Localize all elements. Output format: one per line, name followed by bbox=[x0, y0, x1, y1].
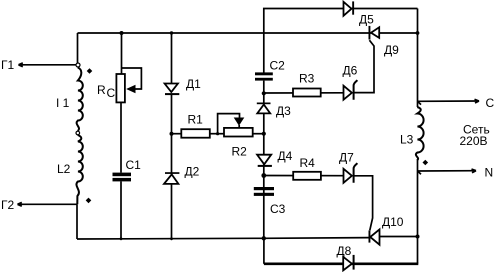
svg-text:C3: C3 bbox=[270, 202, 286, 216]
svg-text:R3: R3 bbox=[299, 72, 315, 86]
svg-text:Д6: Д6 bbox=[343, 64, 358, 78]
svg-text:Д7: Д7 bbox=[339, 151, 354, 165]
svg-text:Г2: Г2 bbox=[1, 198, 14, 212]
svg-text:Г1: Г1 bbox=[1, 58, 14, 72]
svg-text:Д9: Д9 bbox=[384, 43, 399, 57]
svg-text:Д4: Д4 bbox=[278, 149, 293, 163]
svg-text:С: С bbox=[486, 96, 495, 110]
svg-text:Д8: Д8 bbox=[337, 244, 352, 258]
svg-text:Д5: Д5 bbox=[359, 13, 374, 27]
svg-text:C1: C1 bbox=[126, 158, 142, 172]
svg-text:Д3: Д3 bbox=[276, 104, 291, 118]
svg-text:L3: L3 bbox=[400, 133, 414, 147]
svg-text:I 1: I 1 bbox=[56, 96, 70, 110]
svg-text:R1: R1 bbox=[188, 113, 204, 127]
svg-text:220В: 220В bbox=[460, 134, 488, 148]
svg-text:Д1: Д1 bbox=[186, 77, 201, 91]
svg-text:N: N bbox=[485, 166, 494, 180]
svg-text:C2: C2 bbox=[270, 59, 286, 73]
svg-text:C: C bbox=[107, 86, 116, 100]
svg-text:Д10: Д10 bbox=[382, 215, 404, 229]
svg-text:R4: R4 bbox=[300, 156, 316, 170]
svg-text:R: R bbox=[97, 83, 106, 97]
svg-text:R2: R2 bbox=[232, 145, 248, 159]
svg-text:L2: L2 bbox=[57, 162, 71, 176]
svg-text:Д2: Д2 bbox=[185, 165, 200, 179]
